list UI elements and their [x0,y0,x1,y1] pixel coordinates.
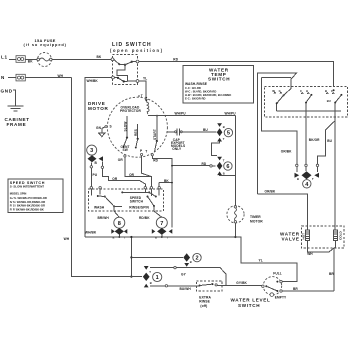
svg-text:YL: YL [143,77,147,81]
svg-text:5: 5 [227,131,230,137]
svg-text:FULL: FULL [273,271,282,275]
svg-text:WH/PU: WH/PU [225,111,237,115]
svg-text:WH: WH [64,237,70,241]
svg-text:VALVE: VALVE [282,236,300,241]
svg-text:3: 3 [90,148,93,154]
svg-text:START: START [153,129,157,140]
svg-text:SWITCH: SWITCH [238,303,260,308]
svg-text:H-W : BU-RD, BK/OR-RD, BU-OR/B: H-W : BU-RD, BK/OR-RD, BU-OR/BK [185,93,231,97]
svg-text:(if so equipped): (if so equipped) [24,42,67,47]
svg-text:WASH: WASH [94,205,105,209]
svg-text:B: B [113,236,115,240]
svg-text:WATER LEVEL: WATER LEVEL [231,298,271,303]
svg-text:7: 7 [160,221,163,227]
svg-text:MOTOR: MOTOR [250,220,263,224]
svg-text:OR: OR [129,173,135,177]
svg-text:BU/WH: BU/WH [180,287,192,291]
svg-text:RINSE/SPIN: RINSE/SPIN [129,205,149,209]
svg-text:B: B [297,177,299,181]
svg-text:L1: L1 [1,55,8,60]
svg-text:GN: GN [96,126,102,130]
svg-text:E-C : BK/OR-RD: E-C : BK/OR-RD [185,97,206,101]
svg-text:OR/BK: OR/BK [265,189,276,193]
svg-text:W-C : BU-RD, BK/OR-RD: W-C : BU-RD, BK/OR-RD [185,90,216,94]
svg-text:WH/BK: WH/BK [87,79,99,83]
svg-text:MODEL SPIN: MODEL SPIN [10,192,27,196]
svg-text:C-C : BU-RD: C-C : BU-RD [185,86,201,90]
svg-text:BK: BK [164,179,169,183]
svg-text:S- SLOW INTERMITTENT: S- SLOW INTERMITTENT [10,185,45,189]
svg-text:COLD: COLD [339,230,343,240]
svg-text:YL: YL [259,258,263,262]
svg-text:1: 1 [156,275,159,281]
svg-text:2: 2 [195,256,198,262]
svg-text:F/ S / BK/WH-BK,RD/BK-OR: F/ S / BK/WH-BK,RD/BK-OR [10,204,45,208]
svg-text:BR/WH: BR/WH [98,216,110,220]
svg-text:S/ S / BK/WH-OR,RD/BK-OR: S/ S / BK/WH-OR,RD/BK-OR [10,200,46,204]
svg-text:RES: RES [134,129,138,136]
svg-text:WH/BK: WH/BK [85,230,97,234]
svg-text:S: S [110,124,112,128]
svg-text:8: 8 [118,221,121,227]
svg-text:SLOW: SLOW [123,122,127,132]
svg-text:GND: GND [1,89,13,94]
svg-text:ONLY: ONLY [172,147,182,151]
svg-text:G-/ S / BK/WH-PU/ RD/BK-OR: G-/ S / BK/WH-PU/ RD/BK-OR [10,196,47,200]
svg-text:WH/PU: WH/PU [175,111,187,115]
svg-text:B: B [150,281,152,285]
svg-text:GY: GY [181,273,187,277]
svg-text:T: T [141,94,143,98]
svg-text:BU: BU [203,128,208,132]
svg-text:OR: OR [118,158,124,162]
svg-text:RD/BK: RD/BK [139,216,150,220]
svg-text:MOTOR: MOTOR [88,106,109,111]
svg-text:BU: BU [327,139,332,143]
svg-text:RINSE: RINSE [199,300,210,304]
svg-text:BR: BR [293,287,298,291]
svg-text:BK: BK [97,55,102,59]
svg-text:FRAME: FRAME [7,122,27,127]
svg-text:B: B [223,125,225,129]
svg-text:SWITCH: SWITCH [130,200,144,204]
svg-text:B: B [190,260,192,264]
svg-text:BR: BR [329,272,334,276]
svg-text:WASH-RINSE: WASH-RINSE [185,82,208,86]
svg-text:PROTECTOR: PROTECTOR [120,109,141,113]
svg-text:N: N [1,75,5,80]
svg-text:OR/BK: OR/BK [281,149,292,153]
svg-text:TIMER: TIMER [250,215,261,219]
svg-text:HOT: HOT [301,233,305,240]
svg-text:B: B [223,171,225,175]
svg-text:BK: BK [28,60,33,64]
svg-text:GY/BK: GY/BK [236,281,247,285]
svg-text:WH: WH [58,74,64,78]
svg-text:RD: RD [173,57,178,61]
svg-text:WH: WH [307,252,313,256]
svg-text:F/ F/ BK/WH-BK,RD/BK-BK: F/ F/ BK/WH-BK,RD/BK-BK [10,207,44,211]
svg-text:6: 6 [226,164,229,170]
svg-text:SW: SW [123,148,128,152]
svg-text:OR: OR [112,177,118,181]
svg-text:PU: PU [93,173,98,177]
svg-text:SWITCH: SWITCH [208,77,230,82]
svg-text:B: B [155,236,157,240]
svg-text:(off): (off) [200,304,207,308]
svg-text:RD: RD [153,158,158,162]
svg-text:(open position): (open position) [110,48,164,53]
svg-text:T: T [145,149,147,153]
svg-text:BK/OR: BK/OR [309,138,320,142]
svg-text:EMPTY: EMPTY [275,296,287,300]
svg-text:BU: BU [327,99,331,103]
